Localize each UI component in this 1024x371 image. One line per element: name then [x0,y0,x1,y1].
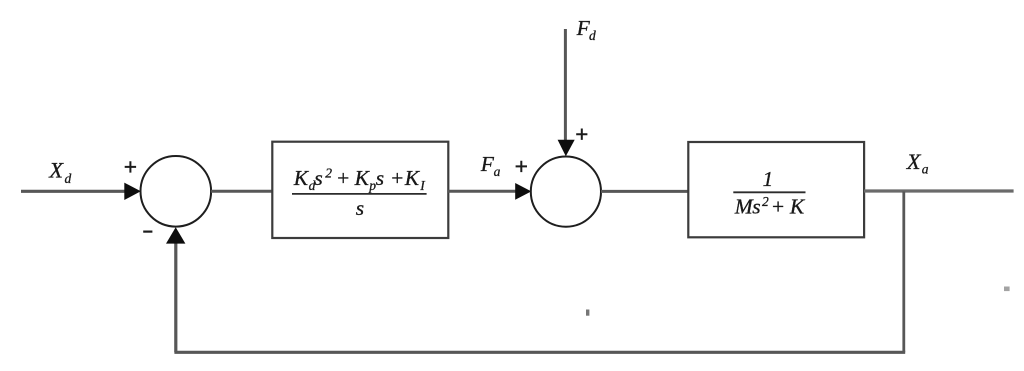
arrowhead feedback into S1 [166,227,185,243]
svg-text:K: K [293,166,310,190]
svg-text:K: K [354,166,371,190]
svg-text:+: + [336,166,351,190]
svg-text:M: M [734,195,754,219]
svg-text:F: F [480,152,495,176]
speck artifact right [1004,287,1010,292]
svg-text:2: 2 [325,166,332,181]
block G1 PID controller [272,142,448,238]
svg-text:+: + [771,195,786,219]
svg-text:X: X [48,157,64,182]
summing junction S1 [141,156,212,227]
summing junction S2 [531,157,601,227]
wire S2 to block G2 [601,190,688,193]
wire feedback bottom horizontal [174,351,905,354]
svg-text:X: X [906,149,922,174]
plus sign at S2 top input [576,129,587,140]
G2 fraction bar [733,191,805,193]
arrowhead into summing junction S1 [124,183,141,200]
svg-text:a: a [922,162,929,177]
wire Fd vertical drop [564,29,567,142]
svg-text:K: K [789,195,806,219]
svg-text:s: s [376,166,384,190]
svg-text:+: + [390,166,405,190]
wire feedback branch vertical [902,192,905,353]
minus sign at S1 feedback input [143,231,152,233]
wire feedback left vertical [174,244,177,353]
svg-text:s: s [314,166,322,190]
wire S1 to block G1 [211,190,272,193]
svg-text:d: d [589,28,596,43]
svg-text:s: s [752,195,760,219]
speck artifact center [586,310,589,316]
arrowhead into S2 [515,183,531,200]
svg-text:a: a [494,164,501,179]
svg-text:K: K [404,166,421,190]
svg-text:2: 2 [762,194,769,209]
wire G1 to summing junction S2 [448,190,517,193]
arrowhead Fd into S2 [558,140,575,157]
G1 fraction bar [292,193,427,195]
svg-text:d: d [65,171,72,186]
wire input Xd [21,190,126,193]
block G2 plant [688,142,864,237]
plus sign at S1 input [125,161,136,172]
svg-text:1: 1 [763,167,774,191]
wire output Xa [864,189,1014,192]
plus sign at S2 left input [516,161,527,172]
svg-text:s: s [356,196,364,220]
